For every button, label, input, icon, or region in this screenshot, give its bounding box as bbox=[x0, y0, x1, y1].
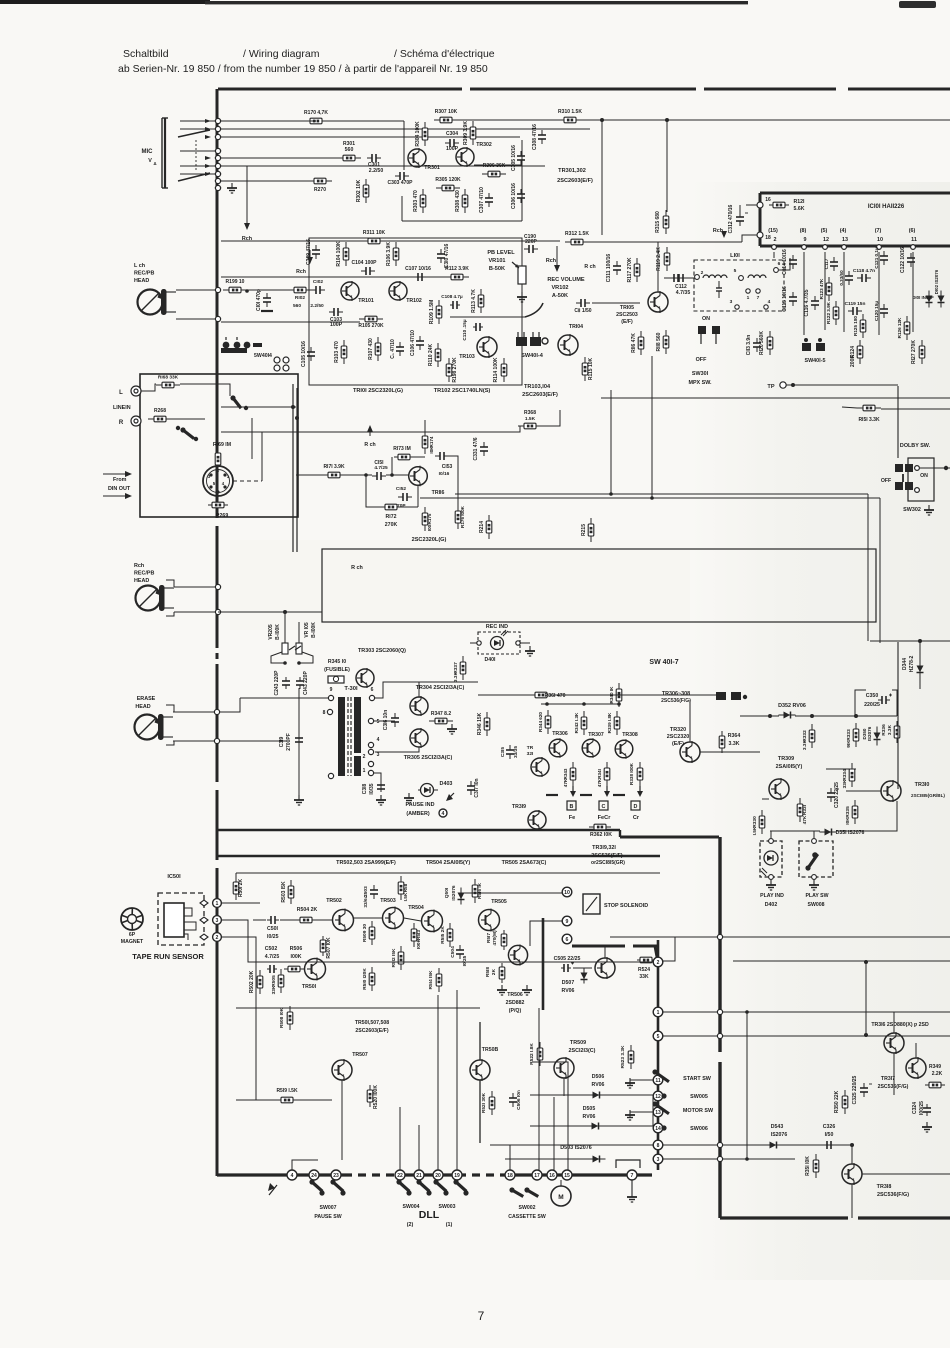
svg-text:R176 I00K: R176 I00K bbox=[460, 505, 465, 528]
svg-text:2SAI0I5(Y): 2SAI0I5(Y) bbox=[776, 764, 803, 770]
svg-text:CI53: CI53 bbox=[442, 464, 453, 470]
label TAPE RUN SENSOR bbox=[132, 952, 204, 961]
capacitor C505 bbox=[561, 962, 574, 973]
capacitor C504 bbox=[450, 945, 464, 959]
terminal terminal 13 column bbox=[653, 1107, 663, 1117]
label TR509 type bbox=[569, 1048, 596, 1054]
T301 pin7 bbox=[328, 773, 333, 778]
svg-text:CI52: CI52 bbox=[396, 486, 406, 492]
label D543 bbox=[771, 1124, 784, 1130]
svg-text:CII3 3.9n: CII3 3.9n bbox=[746, 335, 752, 356]
label R151 value bbox=[858, 417, 880, 423]
wire right rail 399 bbox=[601, 397, 950, 399]
svg-text:3.3K: 3.3K bbox=[729, 741, 740, 747]
switch SW003 lever a bbox=[433, 1179, 446, 1191]
resistor R503 bbox=[281, 880, 294, 904]
capacitor C118 bbox=[853, 268, 875, 282]
svg-text:5: 5 bbox=[377, 719, 380, 725]
svg-text:4.7/35: 4.7/35 bbox=[676, 290, 691, 296]
svg-text:TR103: TR103 bbox=[459, 354, 475, 360]
label C502 value bbox=[265, 954, 280, 960]
svg-text:C110 .15μ: C110 .15μ bbox=[462, 319, 467, 340]
svg-text:C3I8: C3I8 bbox=[362, 784, 368, 795]
resistor R303 bbox=[413, 189, 426, 213]
terminal column wire bbox=[657, 940, 660, 1170]
svg-text:17: 17 bbox=[534, 1173, 540, 1179]
svg-text:R12I: R12I bbox=[794, 199, 806, 205]
svg-text:C307 47/10: C307 47/10 bbox=[479, 187, 485, 213]
ground gnd tr506 b bbox=[522, 985, 532, 995]
resistor R347 bbox=[429, 711, 453, 724]
L101 coils bbox=[703, 275, 766, 278]
svg-text:TRI0I 2SC2320L(G): TRI0I 2SC2320L(G) bbox=[353, 388, 403, 394]
label R121 value bbox=[794, 206, 805, 212]
label VR105 value bbox=[311, 622, 317, 638]
resistor R309 bbox=[463, 121, 476, 145]
diode D102 bbox=[938, 291, 945, 308]
svg-text:33/6.3: 33/6.3 bbox=[363, 894, 369, 908]
resistor R170 bbox=[304, 110, 328, 124]
resistor R103b bbox=[334, 340, 347, 364]
svg-text:R113 4.7K: R113 4.7K bbox=[471, 289, 477, 313]
switch SW004 lever b bbox=[416, 1179, 429, 1191]
label TR319 bbox=[512, 804, 526, 810]
svg-text:19: 19 bbox=[454, 1173, 460, 1179]
svg-text:4: 4 bbox=[291, 1173, 294, 1179]
svg-text:TRII6: TRII6 bbox=[432, 490, 445, 496]
svg-text:R302 10K: R302 10K bbox=[356, 179, 362, 202]
svg-text:M: M bbox=[558, 1194, 563, 1201]
resistor R112 bbox=[445, 266, 469, 280]
wire rail 937 bbox=[610, 936, 950, 938]
svg-text:18: 18 bbox=[765, 235, 771, 241]
wire rail 1 right bbox=[663, 1011, 950, 1013]
svg-text:TR3I9: TR3I9 bbox=[512, 804, 526, 810]
svg-text:RV06: RV06 bbox=[592, 1082, 605, 1088]
label pin18 bbox=[765, 235, 771, 241]
svg-text:IS2076: IS2076 bbox=[451, 885, 457, 901]
svg-text:9: 9 bbox=[804, 237, 807, 243]
svg-text:4: 4 bbox=[442, 811, 445, 817]
label PLAY IND bbox=[760, 893, 784, 899]
REC IND dashed box bbox=[478, 632, 520, 654]
switch SW003 lever b bbox=[453, 1179, 466, 1191]
label TR307 bbox=[588, 732, 604, 738]
svg-text:2SC2603(E/F): 2SC2603(E/F) bbox=[355, 1028, 388, 1034]
svg-text:TR50I: TR50I bbox=[302, 984, 317, 990]
capacitor C190 bbox=[524, 234, 538, 253]
resistor R199 bbox=[223, 279, 247, 293]
wire head rch 2 bbox=[174, 611, 215, 613]
resistor R171 bbox=[322, 464, 346, 478]
svg-text:TR505: TR505 bbox=[491, 899, 507, 905]
svg-text:OFF: OFF bbox=[881, 478, 891, 484]
T301 pin8 bbox=[327, 709, 332, 714]
svg-text:TR502,503 2SA999(E/F): TR502,503 2SA999(E/F) bbox=[336, 860, 396, 866]
svg-text:R503 I5K: R503 I5K bbox=[281, 881, 287, 903]
resistor R172 bbox=[381, 504, 401, 510]
wire c326 tr318 bbox=[851, 1145, 853, 1164]
label R517 bbox=[486, 933, 492, 943]
label D344 bbox=[902, 658, 908, 670]
wire pb low rail bbox=[221, 321, 360, 323]
svg-text:MAGNET: MAGNET bbox=[121, 939, 144, 945]
resistor R151 bbox=[857, 405, 881, 411]
resistor R341 bbox=[597, 762, 610, 786]
wire L101 out bbox=[779, 258, 790, 270]
svg-text:R338 I00K: R338 I00K bbox=[629, 762, 634, 785]
svg-text:3: 3 bbox=[216, 918, 219, 924]
wire r168 to sw bbox=[180, 384, 230, 396]
terminal terminal 18 bottom bbox=[505, 1170, 515, 1180]
svg-text:16: 16 bbox=[765, 197, 771, 203]
label TR506 type2 bbox=[509, 1008, 522, 1014]
svg-text:Rch: Rch bbox=[546, 258, 556, 264]
label C502 bbox=[265, 946, 278, 952]
label A bbox=[153, 161, 156, 166]
svg-text:C3I9: C3I9 bbox=[279, 737, 285, 748]
wire tr304 c bbox=[418, 682, 420, 697]
svg-text:C504: C504 bbox=[450, 946, 456, 958]
svg-text:13: 13 bbox=[842, 237, 848, 243]
label D506b bbox=[592, 1082, 605, 1088]
svg-text:R349: R349 bbox=[929, 1064, 941, 1070]
label t301 5 bbox=[377, 719, 380, 725]
label R172 value bbox=[385, 522, 398, 528]
wire tr318 right bbox=[862, 1173, 950, 1175]
capacitor C111b bbox=[390, 339, 404, 359]
gnd bar tr308 bbox=[613, 794, 625, 796]
svg-text:R310 1.5K: R310 1.5K bbox=[558, 109, 582, 115]
jack L ring bbox=[131, 386, 141, 396]
svg-text:A-50K: A-50K bbox=[552, 293, 568, 299]
label Cr bbox=[633, 815, 640, 821]
svg-text:1: 1 bbox=[363, 768, 366, 774]
label R269 bbox=[216, 513, 229, 519]
svg-text:C₁ 47/10: C₁ 47/10 bbox=[390, 339, 396, 359]
svg-text:REC/PB: REC/PB bbox=[134, 271, 154, 277]
svg-text:C119 15n: C119 15n bbox=[845, 301, 866, 307]
wire R151 left bbox=[842, 407, 857, 408]
wire pb bus top2 bbox=[386, 240, 560, 242]
capacitor C501 bbox=[267, 916, 279, 924]
ground gnd play sw bbox=[809, 880, 819, 890]
transistor TR508 bbox=[470, 1059, 490, 1081]
IC101 pin18 bbox=[757, 232, 763, 238]
wire tr504 link bbox=[404, 918, 421, 921]
gnd bar tr306 bbox=[546, 794, 558, 796]
label C315 value bbox=[513, 746, 519, 758]
svg-text:TR309: TR309 bbox=[778, 756, 794, 762]
transistor TR504 bbox=[422, 910, 443, 933]
resistor R215 bbox=[581, 518, 594, 542]
resistor R310 bbox=[558, 109, 582, 123]
svg-text:B-I00K: B-I00K bbox=[275, 624, 281, 640]
svg-text:START SW: START SW bbox=[683, 1076, 712, 1082]
resistor R364 bbox=[719, 731, 725, 753]
svg-text:R345 I0: R345 I0 bbox=[328, 659, 346, 665]
label R518 bbox=[485, 967, 491, 977]
transistor TR510 bbox=[595, 957, 615, 979]
wire pin16 c312 bbox=[746, 204, 757, 206]
label D401 bbox=[485, 657, 497, 663]
svg-text:L: L bbox=[119, 390, 123, 396]
svg-text:D352 RV06: D352 RV06 bbox=[778, 703, 806, 709]
svg-text:TR3I0: TR3I0 bbox=[915, 782, 930, 788]
heavy bus to motor section bbox=[596, 830, 719, 837]
label D350b bbox=[867, 726, 872, 741]
junction d344 bbox=[918, 639, 922, 643]
scan shading mid band bbox=[230, 540, 690, 630]
label START SW bbox=[683, 1076, 712, 1082]
svg-text:R270: R270 bbox=[314, 187, 326, 193]
resistor R343 bbox=[563, 762, 576, 786]
svg-text:I0/35: I0/35 bbox=[369, 783, 375, 794]
svg-text:C502: C502 bbox=[265, 946, 278, 952]
svg-text:(5): (5) bbox=[821, 228, 828, 234]
svg-text:FeCr: FeCr bbox=[598, 815, 612, 821]
play ind terminals bbox=[769, 839, 774, 880]
capacitor C312 bbox=[728, 204, 748, 233]
label V-A bbox=[148, 158, 152, 164]
svg-text:C104 100P: C104 100P bbox=[351, 260, 377, 266]
label SW004 bbox=[402, 1204, 419, 1210]
wire R170 to node bbox=[328, 120, 404, 122]
junction rails bbox=[717, 934, 722, 1161]
label ON dolby bbox=[920, 473, 928, 479]
start sw contact bbox=[661, 1093, 666, 1098]
wire c505 link bbox=[573, 967, 592, 969]
label TAPE RUN SENSOR right bbox=[0, 0, 1, 1]
label TR321a bbox=[527, 745, 534, 751]
wire mic bus R301 bbox=[221, 157, 343, 159]
label C190 value bbox=[525, 239, 537, 245]
label C112 value bbox=[676, 290, 691, 296]
label VR102 bbox=[551, 285, 568, 291]
label C504 value bbox=[462, 955, 468, 966]
svg-text:2.2K: 2.2K bbox=[932, 1071, 943, 1077]
arrow Rch tr116 bbox=[367, 425, 373, 436]
wire drop x611 bbox=[610, 390, 612, 494]
MIC plug pins bbox=[205, 119, 211, 176]
terminal terminal 12 column bbox=[653, 1091, 663, 1101]
label t301 4 bbox=[377, 737, 380, 743]
wire 9 stub bbox=[530, 921, 562, 946]
gnd bar c101 bbox=[261, 310, 273, 312]
wire L101 in bbox=[664, 277, 694, 279]
jack R ring bbox=[131, 416, 141, 426]
T301 pin5 bbox=[368, 718, 373, 723]
label TR319 321c bbox=[591, 860, 625, 866]
terminal terminal 8 column bbox=[653, 1140, 663, 1150]
capacitor C111 bbox=[574, 299, 591, 314]
label C326 bbox=[823, 1124, 836, 1130]
wire Rch down arrow bbox=[246, 166, 248, 228]
label TR320 type3 bbox=[672, 741, 684, 747]
svg-text:C115 10/16: C115 10/16 bbox=[782, 286, 788, 312]
svg-text:R50I 2K: R50I 2K bbox=[238, 878, 244, 897]
label REC VOLUME bbox=[547, 277, 585, 283]
label From bbox=[113, 477, 127, 483]
label R bbox=[119, 420, 124, 426]
play sw terminals bbox=[812, 839, 817, 880]
resistor R340 bbox=[609, 683, 622, 707]
capacitor C243 bbox=[274, 670, 290, 696]
svg-text:7: 7 bbox=[631, 1173, 634, 1179]
svg-text:TR302: TR302 bbox=[476, 142, 492, 148]
label R507 bbox=[326, 937, 332, 959]
capacitor C331 bbox=[473, 437, 488, 460]
transistor TR309 bbox=[769, 778, 789, 800]
resistor R335 bbox=[845, 800, 858, 824]
svg-text:R350 22K: R350 22K bbox=[834, 1090, 840, 1113]
wire mic lever L bbox=[178, 130, 210, 137]
svg-text:C506 I0n: C506 I0n bbox=[516, 1090, 522, 1110]
fusible resistor R345 bbox=[328, 676, 344, 683]
resistor R214 bbox=[479, 515, 492, 539]
svg-text:TR3I9,32I: TR3I9,32I bbox=[592, 845, 616, 851]
svg-text:RI5I 3.3K: RI5I 3.3K bbox=[858, 417, 880, 423]
resistor R312 bbox=[565, 231, 589, 245]
svg-text:I00K: I00K bbox=[416, 938, 422, 949]
wire tr320 out bbox=[700, 751, 760, 753]
svg-text:C116 4.7/35: C116 4.7/35 bbox=[804, 289, 810, 316]
svg-text:12: 12 bbox=[823, 237, 829, 243]
resistor R507 bbox=[320, 936, 326, 956]
label R343 value bbox=[563, 778, 568, 787]
resistor R522 bbox=[529, 1042, 543, 1066]
resistor R515 bbox=[440, 923, 453, 947]
capacitor C151 bbox=[372, 460, 386, 480]
svg-text:5: 5 bbox=[734, 268, 737, 274]
label IC501 bbox=[167, 874, 181, 880]
svg-text:D: D bbox=[634, 804, 638, 810]
svg-text:2: 2 bbox=[363, 754, 366, 760]
label pin16 bbox=[765, 197, 771, 203]
label C350 value bbox=[864, 702, 880, 708]
resistor R523 bbox=[620, 1045, 634, 1069]
terminal terminal 14 column bbox=[653, 1123, 663, 1133]
svg-text:R214: R214 bbox=[479, 521, 485, 533]
resistor R315 bbox=[655, 210, 669, 234]
resistor R110 bbox=[428, 343, 441, 367]
label D506 bbox=[592, 1074, 605, 1080]
label TR320 type bbox=[670, 727, 686, 733]
svg-text:MOTOR SW: MOTOR SW bbox=[683, 1108, 714, 1114]
svg-text:C312 470/16: C312 470/16 bbox=[728, 204, 734, 233]
svg-text:R334: R334 bbox=[842, 769, 848, 781]
resistor R361 bbox=[529, 692, 566, 699]
label C153 value bbox=[439, 471, 450, 477]
label TR506 bbox=[507, 992, 523, 998]
wire pins down rail bbox=[803, 252, 805, 335]
svg-text:CI43 220P: CI43 220P bbox=[303, 671, 309, 695]
capacitor C317 bbox=[467, 778, 480, 797]
label R124 value bbox=[850, 355, 856, 367]
transistor TR105 bbox=[648, 291, 668, 313]
svg-text:R305 120K: R305 120K bbox=[435, 177, 461, 183]
svg-text:2: 2 bbox=[657, 960, 660, 966]
label MAGNET bbox=[121, 939, 144, 945]
svg-text:R5I2 I5K: R5I2 I5K bbox=[391, 948, 397, 967]
capacitor C112b bbox=[671, 274, 681, 282]
ground gnd d403 bbox=[404, 793, 414, 803]
transistor TR306 bbox=[549, 738, 567, 758]
svg-text:Cr: Cr bbox=[633, 815, 640, 821]
svg-text:C320 22/25: C320 22/25 bbox=[834, 782, 840, 808]
terminal rch head bot bbox=[215, 609, 220, 614]
diode D503 bbox=[587, 1156, 606, 1163]
svg-text:9IK: 9IK bbox=[846, 740, 852, 748]
svg-text:C105 10/16: C105 10/16 bbox=[301, 341, 307, 367]
label t301 1 bbox=[363, 768, 366, 774]
label TR317 bbox=[881, 1076, 895, 1082]
capacitor C119 bbox=[845, 301, 866, 315]
label CASSETTE SW bbox=[508, 1214, 546, 1220]
wire ic col bus bbox=[773, 252, 775, 258]
wire tr502 tr503 bbox=[313, 919, 332, 921]
resistor R337 bbox=[453, 656, 466, 680]
wire col 15 up bbox=[532, 1062, 568, 1170]
MIC connector bracket bbox=[162, 118, 168, 188]
svg-text:C3I6 10n: C3I6 10n bbox=[383, 710, 389, 731]
label R349b bbox=[932, 1071, 943, 1077]
svg-text:SW008: SW008 bbox=[807, 902, 824, 908]
svg-text:R107 430: R107 430 bbox=[368, 338, 374, 360]
svg-text:47K: 47K bbox=[597, 778, 602, 787]
resistor R115 bbox=[582, 357, 594, 381]
wire drop x866 bbox=[865, 961, 867, 1035]
svg-text:1.5K: 1.5K bbox=[525, 416, 536, 422]
svg-text:D402: D402 bbox=[765, 902, 778, 908]
svg-text:R336: R336 bbox=[881, 724, 887, 736]
svg-text:Rch: Rch bbox=[134, 563, 144, 569]
label PAUSE IND bbox=[406, 802, 435, 808]
terminal terminal 16 bottom bbox=[547, 1170, 557, 1180]
svg-text:I0/16: I0/16 bbox=[439, 471, 450, 477]
label MOTOR SW bbox=[683, 1108, 714, 1114]
svg-text:RII6 47K: RII6 47K bbox=[631, 333, 637, 353]
wire tr row rail2 bbox=[280, 919, 299, 921]
svg-text:R110 24K: R110 24K bbox=[428, 343, 434, 366]
wire tr116 mid2 bbox=[386, 474, 409, 476]
transistor TR305 bbox=[410, 728, 428, 748]
svg-text:R198 270K: R198 270K bbox=[452, 357, 458, 383]
svg-text:3.3K: 3.3K bbox=[453, 671, 459, 682]
label 6P bbox=[129, 932, 136, 938]
resistor R306 bbox=[482, 163, 506, 177]
resistor R342 bbox=[574, 711, 587, 735]
terminal terminal 4 bottom bbox=[287, 1170, 297, 1180]
svg-text:(15): (15) bbox=[768, 228, 778, 234]
wire bias top rail2 bbox=[553, 694, 716, 696]
svg-text:2SC536(F/G): 2SC536(F/G) bbox=[878, 1084, 909, 1090]
svg-text:0.33/50: 0.33/50 bbox=[839, 270, 844, 286]
bottom right heavy rail bbox=[720, 1216, 950, 1219]
upper box bottom bus bbox=[218, 829, 620, 831]
terminal terminal 3 sensor bbox=[213, 916, 222, 925]
label TR105 type3 bbox=[621, 319, 633, 325]
wire t301 bottom bbox=[374, 773, 381, 790]
wire head to frame bbox=[176, 289, 215, 291]
svg-text:(4): (4) bbox=[840, 228, 847, 234]
IC101 bottom pins bbox=[768, 228, 917, 249]
svg-text:I0K: I0K bbox=[429, 446, 434, 454]
svg-text:C308 47/16: C308 47/16 bbox=[532, 124, 538, 150]
ground gnd recind bbox=[525, 646, 535, 656]
SW401 pads mid bbox=[716, 692, 747, 700]
svg-text:DIN OUT: DIN OUT bbox=[108, 486, 131, 492]
